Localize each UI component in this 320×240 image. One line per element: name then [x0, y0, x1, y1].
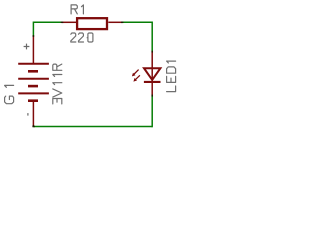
LED1 triangle — [144, 68, 160, 80]
label G1 (rotated) — [5, 85, 14, 103]
wire: bottom horizontal net — [33, 126, 152, 128]
battery G1 long plate 3 — [18, 92, 49, 94]
battery G1 long plate 2 — [18, 78, 49, 80]
junction LED anode pin end — [151, 51, 153, 53]
resistor R1 left pin — [62, 21, 76, 23]
battery G1 short plate 1 — [28, 70, 38, 73]
battery plus sign — [24, 44, 30, 50]
junction resistor right pin end — [121, 21, 123, 23]
LED1 cathode pin — [151, 82, 153, 95]
label LED1 (rotated) — [167, 61, 176, 92]
junction LED cathode pin end — [151, 95, 153, 97]
label R1 — [71, 5, 83, 14]
LED1 emission arrow lower — [133, 75, 140, 81]
junction resistor left pin end — [61, 21, 64, 23]
resistor R1 right pin — [108, 21, 122, 23]
LED1 emission arrow upper — [132, 70, 139, 77]
LED1 cathode bar — [144, 81, 161, 83]
wire: left vertical net from corner down to battery pin — [32, 22, 34, 37]
battery G1 long plate 1 — [18, 63, 49, 65]
LED1 anode pin (passes through triangle) — [151, 52, 153, 82]
battery G1 top pin — [32, 36, 34, 64]
resistor R1 body — [77, 18, 107, 29]
battery G1 short plate 3 — [28, 99, 38, 102]
battery G1 short plate 2 — [28, 85, 38, 88]
wire: right vertical net from LED cathode pin to bottom corner — [151, 95, 153, 127]
label 3V11R (rotated) — [53, 64, 62, 104]
battery G1 bottom pin — [32, 101, 34, 127]
wire: top-right horizontal net from resistor pin to LED corner — [123, 21, 153, 23]
wire: top-left horizontal net from battery corner to resistor pin — [33, 21, 62, 23]
battery minus sign — [27, 113, 29, 116]
label 220 — [71, 33, 93, 42]
junction bottom-left corner — [32, 125, 34, 127]
wire: right vertical net from corner down to LED anode pin — [151, 22, 153, 52]
junction battery top pin end — [32, 35, 34, 37]
